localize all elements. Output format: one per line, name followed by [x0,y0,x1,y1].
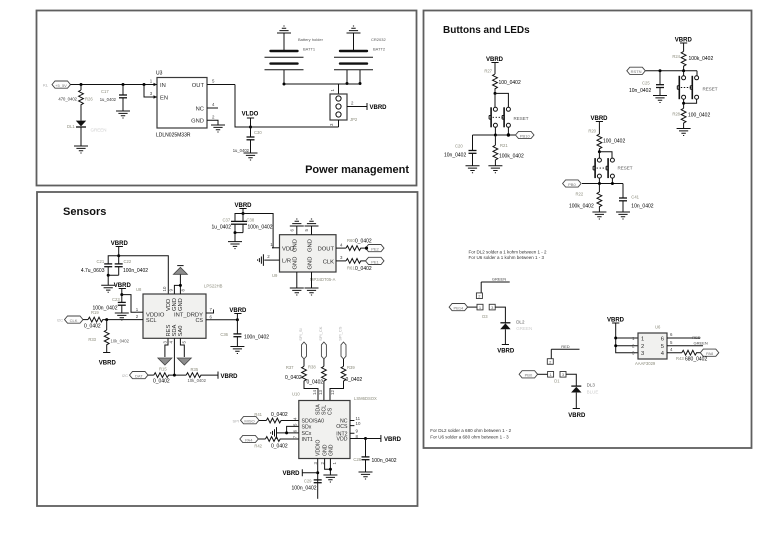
svg-text:C36: C36 [220,332,228,337]
svg-text:CS: CS [328,407,334,415]
svg-text:R26: R26 [85,97,93,102]
svg-text:D3: D3 [482,314,488,319]
svg-text:100n_0402: 100n_0402 [248,224,273,230]
svg-text:R28: R28 [672,112,680,117]
svg-text:Sensors: Sensors [63,206,106,218]
svg-text:DL1: DL1 [67,124,75,129]
svg-text:C17: C17 [101,89,109,94]
svg-text:For U6 solder a 680 ohm betwee: For U6 solder a 680 ohm between 1 - 3 [430,434,509,439]
svg-text:C38: C38 [247,218,255,223]
svg-text:MP34DT05-A: MP34DT05-A [310,277,336,282]
svg-text:1u_0402: 1u_0402 [100,97,117,102]
svg-text:VBRD: VBRD [568,413,586,419]
svg-text:RESET: RESET [703,87,718,92]
svg-text:D1: D1 [554,379,560,384]
svg-text:12: 12 [330,390,335,395]
svg-text:C21: C21 [97,259,105,264]
svg-text:R20: R20 [588,129,596,134]
svg-text:5: 5 [661,344,664,350]
svg-text:0_0402: 0_0402 [285,375,302,381]
svg-text:VLDO: VLDO [242,112,259,118]
svg-text:R22: R22 [576,191,584,196]
svg-text:MISO: MISO [244,419,254,424]
svg-text:100n_0402: 100n_0402 [244,335,269,341]
svg-text:INT1: INT1 [302,437,313,443]
svg-text:RESET: RESET [514,116,529,121]
svg-text:RSTN: RSTN [631,69,642,74]
svg-text:3: 3 [641,351,644,357]
svg-text:C29: C29 [304,479,312,484]
svg-text:U9: U9 [272,273,278,278]
svg-text:0_0402: 0_0402 [355,266,372,272]
svg-text:RES: RES [166,324,172,336]
svg-text:0_0402: 0_0402 [346,377,363,383]
svg-text:PB10: PB10 [520,133,531,138]
svg-text:PB0: PB0 [568,182,576,187]
svg-text:L/R: L/R [282,259,291,265]
svg-text:For DL2 solder a 680 ohm betwe: For DL2 solder a 680 ohm between 1 - 2 [430,428,511,433]
svg-text:VDDIO: VDDIO [316,440,322,456]
svg-text:0_0402: 0_0402 [271,412,288,418]
svg-text:Battery holder: Battery holder [298,37,324,42]
svg-text:VBRD: VBRD [221,374,239,380]
svg-text:GND: GND [172,298,178,311]
svg-text:C23: C23 [112,297,120,302]
svg-text:IN: IN [160,83,166,89]
svg-text:Buttons and LEDs: Buttons and LEDs [443,25,530,36]
svg-text:VBRD: VBRD [99,361,117,367]
svg-text:R37: R37 [286,365,294,370]
svg-text:R43: R43 [676,356,684,361]
svg-text:GND: GND [178,298,184,311]
svg-text:C41: C41 [631,195,639,200]
svg-text:BATT2: BATT2 [373,47,386,52]
svg-text:10k_0402: 10k_0402 [111,339,130,344]
svg-text:SCx: SCx [302,431,312,437]
svg-text:I2C: I2C [57,318,63,323]
svg-text:JP2: JP2 [350,117,358,122]
svg-text:Power management: Power management [305,164,409,176]
svg-text:2: 2 [641,344,644,350]
svg-text:1: 1 [641,337,644,343]
svg-text:R39: R39 [347,365,355,370]
svg-text:SPI_SI: SPI_SI [298,328,303,340]
svg-text:SPI_CS: SPI_CS [338,326,343,341]
svg-text:DL2: DL2 [516,320,525,325]
svg-text:GREEN: GREEN [694,341,708,346]
svg-text:U10: U10 [292,392,300,397]
svg-text:4.7u_0603: 4.7u_0603 [81,268,105,274]
svg-text:13: 13 [318,390,323,395]
svg-text:470_0402: 470_0402 [58,97,77,102]
svg-text:0_0402: 0_0402 [355,238,372,244]
svg-text:C20: C20 [455,144,463,149]
svg-text:100n_0402: 100n_0402 [292,486,317,492]
svg-text:CS: CS [196,318,204,324]
svg-text:U6: U6 [655,325,661,330]
svg-text:R42: R42 [254,444,262,449]
svg-text:1u_0402: 1u_0402 [212,224,232,230]
svg-text:PE1: PE1 [371,259,379,264]
svg-text:10: 10 [162,286,167,291]
svg-text:RESET: RESET [618,166,633,171]
svg-text:10: 10 [356,421,361,426]
svg-text:0_0402: 0_0402 [271,444,288,450]
svg-text:PB14: PB14 [454,306,465,311]
svg-text:GREEN: GREEN [91,128,107,133]
svg-text:LDLN025M33R: LDLN025M33R [156,133,191,139]
svg-text:VBRD: VBRD [282,471,300,477]
svg-text:CLK: CLK [323,259,334,265]
svg-text:AAAF3029: AAAF3029 [635,361,656,366]
svg-text:BLUE: BLUE [587,390,599,395]
svg-text:SDO/SA0: SDO/SA0 [302,419,325,425]
svg-text:6: 6 [661,337,664,343]
svg-text:R41: R41 [254,412,262,417]
svg-text:SCL: SCL [146,318,157,324]
svg-text:SDA: SDA [172,324,178,336]
svg-text:100k_0402: 100k_0402 [499,154,524,160]
svg-text:VBRD: VBRD [384,437,402,443]
svg-text:SA0: SA0 [178,326,184,337]
svg-text:R27: R27 [484,69,492,74]
svg-text:100_0402: 100_0402 [603,139,625,145]
svg-text:100_0402: 100_0402 [499,80,521,86]
svg-text:PB0: PB0 [525,373,533,378]
svg-text:0_0402: 0_0402 [153,379,170,385]
svg-text:CR2032: CR2032 [371,37,386,42]
svg-text:R24: R24 [672,54,680,59]
svg-text:OUT: OUT [192,83,205,89]
svg-text:1u_0402: 1u_0402 [233,148,250,153]
svg-text:GND: GND [308,239,314,252]
svg-text:NC: NC [196,107,204,113]
svg-text:10k_0402: 10k_0402 [188,378,207,383]
svg-text:680_0402: 680_0402 [685,356,707,362]
svg-text:DL3: DL3 [587,382,596,387]
svg-text:SDx: SDx [302,425,312,431]
svg-text:LPS22HB: LPS22HB [204,284,223,289]
svg-text:100k_0402: 100k_0402 [569,203,594,209]
svg-text:KL: KL [43,83,49,88]
svg-text:100n_0402: 100n_0402 [123,268,148,274]
svg-text:100n_0402: 100n_0402 [372,458,397,464]
svg-text:C25: C25 [642,81,650,86]
svg-text:DOUT: DOUT [318,247,335,253]
svg-text:PE2: PE2 [371,247,379,252]
svg-text:PA4: PA4 [245,437,253,442]
svg-text:GND: GND [293,239,299,252]
svg-text:GREEN: GREEN [492,277,506,282]
svg-text:GND: GND [328,444,334,456]
svg-text:R19: R19 [91,310,99,315]
svg-text:10n_0402: 10n_0402 [631,203,653,209]
svg-text:C28: C28 [353,457,361,462]
svg-text:LSM6DSOX: LSM6DSOX [354,396,377,401]
svg-text:R21: R21 [500,143,508,148]
svg-text:CLK: CLK [70,318,78,323]
svg-text:DAT: DAT [135,374,143,379]
svg-text:VBRD: VBRD [497,349,515,355]
svg-text:RED: RED [561,344,570,349]
svg-text:VDD: VDD [337,437,348,443]
svg-text:VDD: VDD [166,299,172,311]
svg-text:R15: R15 [159,366,167,371]
svg-text:0_0402: 0_0402 [84,324,101,330]
svg-text:U8: U8 [136,287,142,292]
svg-text:BATT1: BATT1 [303,47,316,52]
svg-text:100_0402: 100_0402 [688,113,710,119]
svg-text:C30: C30 [254,130,262,135]
svg-text:VBRD: VBRD [370,105,388,111]
svg-text:R33: R33 [88,337,96,342]
svg-text:10n_0402: 10n_0402 [444,153,466,159]
svg-text:GND: GND [191,119,204,125]
svg-text:SPI_CK: SPI_CK [318,326,323,341]
svg-text:U3: U3 [156,71,163,77]
svg-text:14: 14 [312,390,317,395]
svg-text:R38: R38 [308,365,316,370]
svg-text:OCS: OCS [336,424,348,430]
svg-text:10n_0402: 10n_0402 [629,88,651,94]
svg-text:GREEN: GREEN [516,326,532,331]
svg-text:RED: RED [692,335,701,340]
svg-text:C22: C22 [124,259,132,264]
svg-text:SPI: SPI [233,418,239,423]
svg-text:GND: GND [293,257,299,270]
svg-text:For U6 solder a 1 kohm between: For U6 solder a 1 kohm between 1 - 3 [469,255,545,260]
svg-text:EN: EN [160,96,168,102]
svg-text:+5_5V: +5_5V [55,83,67,88]
svg-text:GND: GND [308,257,314,270]
svg-text:C37: C37 [223,218,231,223]
svg-text:100k_0402: 100k_0402 [689,56,714,62]
svg-text:0_0402: 0_0402 [307,379,324,385]
svg-text:R35: R35 [191,367,199,372]
svg-text:I2C: I2C [122,373,128,378]
